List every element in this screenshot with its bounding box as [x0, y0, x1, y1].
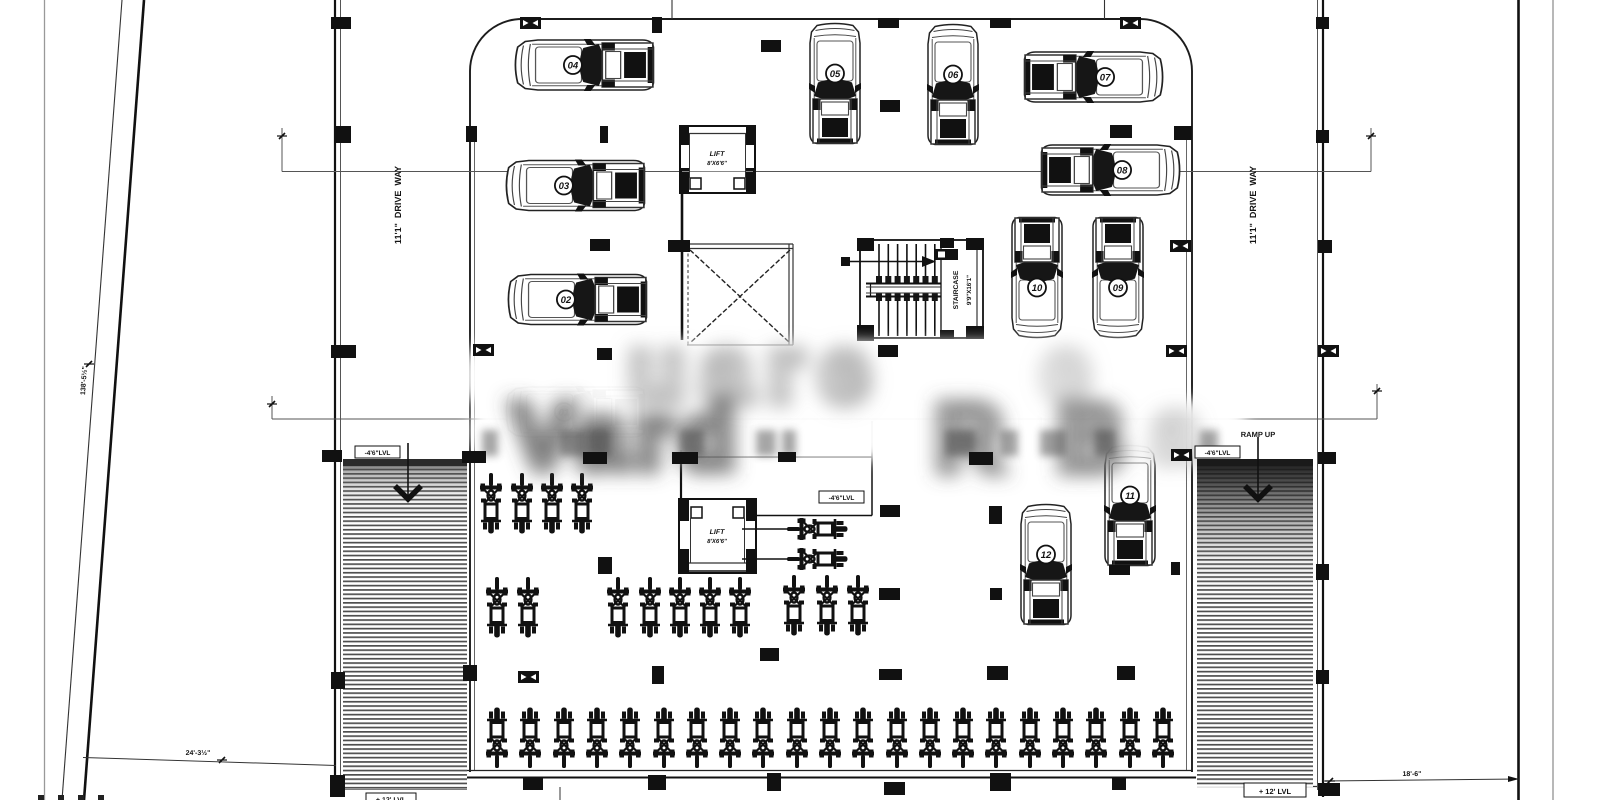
svg-text:02: 02 — [561, 295, 572, 306]
svg-text:06: 06 — [948, 70, 959, 81]
svg-text:RAMP UP: RAMP UP — [1241, 430, 1275, 439]
svg-text:18'-6": 18'-6" — [1403, 771, 1422, 778]
svg-text:STAIRCASE: STAIRCASE — [953, 270, 960, 309]
svg-text:05: 05 — [830, 69, 841, 80]
svg-text:LIFT: LIFT — [710, 529, 725, 536]
svg-text:10: 10 — [1032, 283, 1043, 294]
svg-text:08: 08 — [1117, 165, 1128, 176]
svg-text:04: 04 — [568, 60, 579, 71]
svg-text:03: 03 — [559, 181, 570, 192]
svg-text:-4'6"LVL: -4'6"LVL — [829, 495, 855, 502]
svg-text:12: 12 — [1041, 550, 1052, 561]
svg-text:Vard: Vard — [512, 386, 743, 488]
svg-text:-4'6"LVL: -4'6"LVL — [365, 450, 391, 457]
svg-text:07: 07 — [1100, 72, 1111, 83]
svg-text:8'X6'6": 8'X6'6" — [707, 160, 727, 167]
svg-text:09: 09 — [1113, 283, 1124, 294]
svg-text:a: a — [1150, 380, 1202, 482]
svg-text:8'X6'6": 8'X6'6" — [707, 538, 727, 545]
svg-text:+ 12' LVL: + 12' LVL — [1259, 787, 1292, 796]
svg-text:11: 11 — [1125, 491, 1135, 502]
svg-text:11'1" DRIVE WAY: 11'1" DRIVE WAY — [393, 166, 403, 244]
svg-text:11'1" DRIVE WAY: 11'1" DRIVE WAY — [1248, 166, 1258, 244]
svg-text:-4'6"LVL: -4'6"LVL — [1205, 450, 1231, 457]
svg-text:LIFT: LIFT — [710, 151, 725, 158]
svg-text:24'-3½": 24'-3½" — [186, 750, 211, 757]
svg-text:9'9"X16'1": 9'9"X16'1" — [966, 275, 973, 305]
